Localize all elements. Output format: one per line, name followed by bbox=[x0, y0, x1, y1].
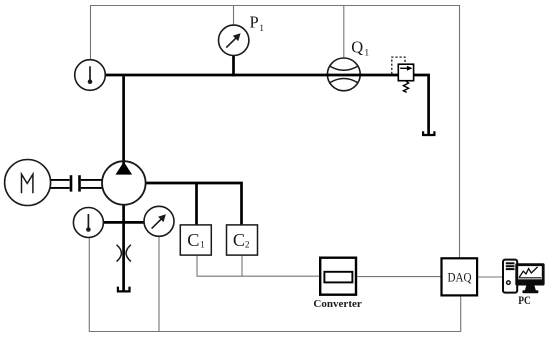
svg-text:1: 1 bbox=[200, 240, 205, 250]
svg-text:Q: Q bbox=[351, 38, 363, 57]
svg-text:PC: PC bbox=[518, 293, 531, 307]
svg-text:2: 2 bbox=[245, 240, 250, 250]
svg-text:DAQ: DAQ bbox=[448, 270, 472, 284]
svg-text:1: 1 bbox=[364, 48, 369, 58]
svg-text:1: 1 bbox=[259, 24, 264, 34]
svg-text:P: P bbox=[250, 13, 259, 32]
svg-text:Converter: Converter bbox=[313, 298, 362, 310]
svg-text:C: C bbox=[187, 230, 199, 250]
svg-text:C: C bbox=[233, 230, 245, 250]
